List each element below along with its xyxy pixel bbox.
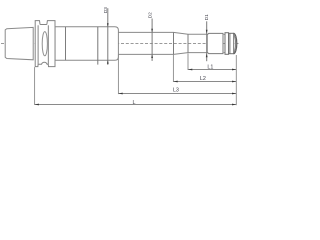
dimension L1: [187, 53, 189, 70]
taper end face line: [187, 34, 189, 52]
svg-text:L3: L3: [173, 88, 179, 94]
D2 arrow top: [151, 29, 153, 33]
flange drive slot ellipse: [42, 32, 47, 56]
shaft top outline: [118, 32, 207, 34]
nut cap round end outer: [234, 33, 237, 53]
taper shank: [5, 27, 33, 59]
nut cap round end inner: [233, 34, 235, 52]
body cylinder: [55, 27, 118, 60]
dimension L: [34, 67, 36, 105]
svg-text:D2: D2: [148, 12, 153, 18]
shaft bottom outline: [118, 53, 207, 55]
flange groove line left: [37, 25, 39, 64]
svg-text:L2: L2: [200, 76, 206, 82]
right extension line: [235, 55, 237, 105]
svg-text:D3: D3: [103, 7, 108, 13]
svg-text:L: L: [133, 100, 136, 106]
dimension D3 line: [107, 8, 109, 65]
D1 arrow top: [206, 30, 208, 34]
dimension D1 line: [206, 21, 208, 61]
nose ring: [225, 33, 229, 55]
shaft face line: [173, 32, 175, 54]
svg-text:L1: L1: [207, 65, 213, 71]
D3 arrow bottom: [107, 60, 109, 64]
svg-text:D1: D1: [204, 14, 209, 20]
nose tip cylinder: [207, 33, 223, 53]
D3 arrow top: [107, 23, 109, 27]
flange groove line right: [47, 25, 49, 64]
centerline: [1, 43, 239, 45]
nose groove: [223, 34, 225, 52]
dimension D2 line: [151, 19, 153, 61]
dimension L2: [172, 54, 174, 82]
body face line (L3 datum): [97, 27, 99, 65]
D2 arrow bottom: [151, 54, 153, 58]
dimension L3: [117, 54, 119, 94]
nut cap inner line: [229, 33, 231, 53]
body face line (collar): [65, 27, 67, 60]
nut cap: [229, 33, 234, 53]
D1 arrow bottom: [206, 54, 208, 58]
flange: [35, 21, 55, 67]
